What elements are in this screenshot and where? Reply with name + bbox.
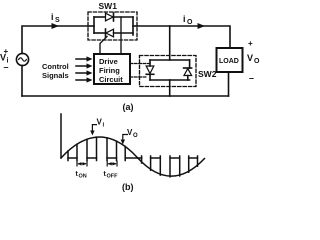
baseline off segments negative [138,157,142,159]
wire SW1 entry [88,25,94,27]
thyristor T2 (bottom, pointing left) [106,29,114,37]
svg-text:Signals: Signals [42,71,69,80]
waveform axes [61,114,205,177]
wire top rail from source to SW1 [22,26,88,54]
wire SW1 output to load corner [137,26,230,48]
tON dimension ticks and arrows [77,161,87,167]
tOFF dimension ticks and arrows [107,161,117,167]
envelope sine negative half [138,158,205,176]
LOAD box [217,48,243,72]
svg-text:V: V [0,53,6,63]
svg-text:S: S [55,17,60,24]
wire SW1 top branch [94,16,105,18]
svg-text:ON: ON [79,174,87,180]
wire left vertical below source [21,66,23,97]
gate line drive to SW2 lower (dashed) [130,76,147,78]
SW1 dashed box [88,12,137,40]
chop edge verticals positive [67,151,69,161]
baseline off segments positive [68,157,77,159]
wire SW1 bottom branch left [94,32,105,34]
svg-text:Control: Control [42,62,69,71]
arrow is on top rail [52,23,60,29]
gate line drive to SW2 upper (dashed) [130,63,150,65]
svg-text:LOAD: LOAD [219,58,239,65]
SW2 dashed box [140,56,197,87]
wire SW1 output tap [133,25,137,27]
svg-text:Drive: Drive [99,57,118,66]
svg-text:V: V [247,53,253,63]
wire SW2 top loop [150,59,190,61]
wire SW1 right vertical [132,17,134,35]
arrow io on top rail [198,23,206,29]
svg-text:(b): (b) [122,182,134,192]
svg-text:Circuit: Circuit [99,75,123,84]
svg-text:SW1: SW1 [99,1,118,11]
wire SW2 bottom loop [150,79,190,81]
wire LOAD bottom to rail [228,72,230,96]
ac source V1 [16,53,28,65]
svg-text:i: i [51,12,54,22]
svg-text:–: – [249,73,254,83]
chop edge verticals negative [141,156,143,163]
svg-text:(a): (a) [123,102,134,112]
svg-text:O: O [254,58,260,65]
wire SW1 left branch vertical [93,17,95,33]
thyristor T3 (SW2 left, pointing down) [146,66,154,74]
svg-text:–: – [4,62,9,72]
svg-text:O: O [187,19,193,26]
svg-text:OFF: OFF [107,174,119,180]
wire left device top stub [149,60,151,66]
wire SW2 down to bottom rail [169,80,171,96]
svg-text:SW2: SW2 [198,69,217,79]
svg-text:i: i [183,14,186,24]
leader Vo [123,135,128,142]
thyristor T1 (top, pointing right) [106,13,114,21]
envelope sine positive half [61,137,138,158]
wire bottom rail [22,95,229,97]
control signal arrows [76,59,88,80]
thyristor T4 (SW2 right, pointing up) [189,60,191,68]
svg-text:O: O [133,133,138,139]
leader Vi [92,125,97,132]
drive firing circuit box U1 [94,54,130,84]
wire feed from top rail into SW2 [169,26,171,60]
wire T2 anode to right vertical [114,32,134,34]
wire T2 gate lead diagonal to drive circuit [100,37,107,55]
svg-text:Firing: Firing [99,66,120,75]
svg-text:+: + [248,39,253,48]
wire T1 cathode to right vertical [114,16,134,18]
wire T1 gate lead down to drive circuit [120,17,122,54]
y axis [60,114,62,158]
